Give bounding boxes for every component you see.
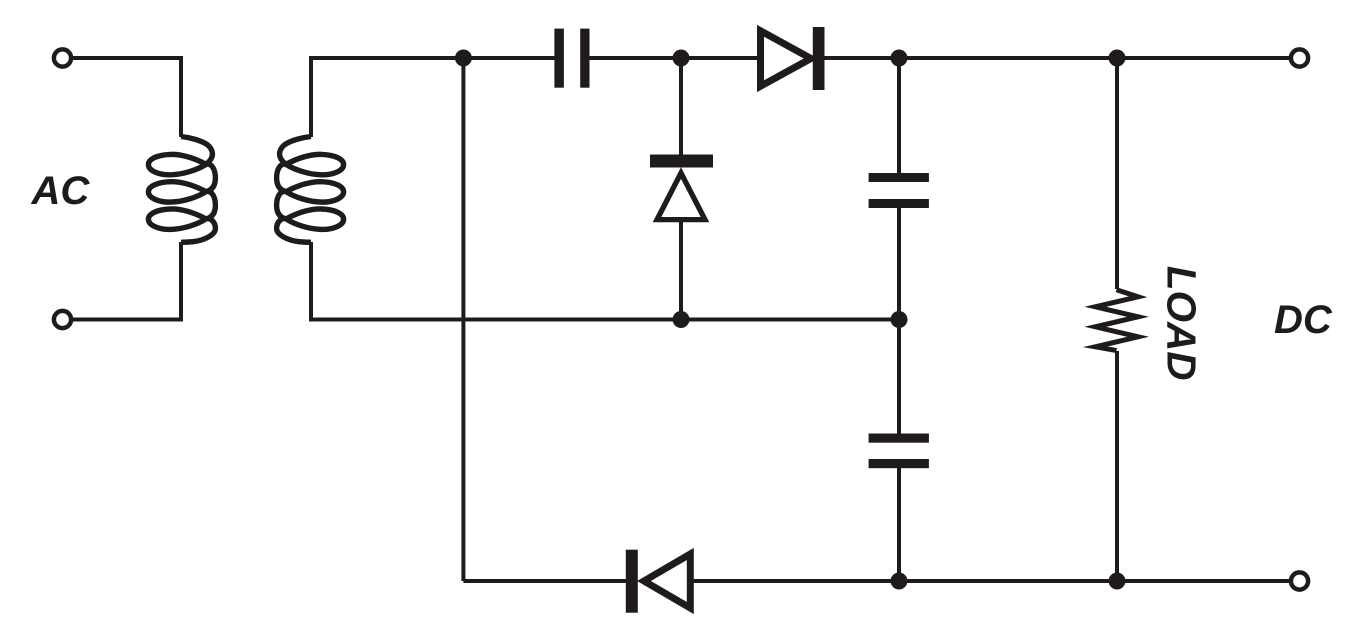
wire: AC bottom lead [73, 242, 182, 320]
junction dot top rail x=681 [673, 50, 690, 67]
junction dot middle rail x=899 [891, 311, 908, 328]
capacitor C2 plate top [869, 173, 929, 182]
wire: C2 bottom lead [897, 205, 901, 320]
wire: C3 top lead [897, 320, 901, 437]
terminal: DC minus [1291, 572, 1308, 589]
terminal: DC plus [1291, 49, 1308, 66]
wire: zener top lead [679, 58, 683, 157]
wire: top rail C1 to D1 [588, 56, 759, 60]
capacitor C2 plate bottom [869, 199, 929, 208]
junction dot middle rail x=681 [673, 311, 690, 328]
svg-text:AC: AC [30, 169, 90, 213]
wire: zener bottom lead [679, 221, 683, 320]
transformer primary winding L1 [148, 137, 215, 243]
wire: top rail D1 to DC+ terminal [823, 56, 1289, 60]
wire: C2 top lead [897, 58, 901, 176]
wire: secondary top stub to top rail [311, 58, 556, 137]
zener diode D3 cathode bar [650, 155, 713, 168]
resistor R-load zigzag [1095, 290, 1138, 351]
capacitor C3 plate bottom [869, 459, 929, 468]
wire: load top lead [1115, 58, 1119, 289]
wire: secondary bottom stub and middle rail [311, 242, 899, 320]
wire: bottom rail left of D2 [463, 579, 629, 583]
svg-text:DC: DC [1274, 298, 1333, 342]
wire: load bottom lead [1115, 351, 1119, 581]
junction dot bottom rail x=1117 [1109, 573, 1126, 590]
capacitor C1 plate right [580, 29, 589, 88]
diode D2 triangle [644, 554, 690, 608]
junction dot top rail x=1117 [1109, 50, 1126, 67]
terminal: AC top [54, 49, 71, 66]
junction dot top rail x=899 [891, 50, 908, 67]
junction dot top rail x=463 [455, 50, 472, 67]
svg-text:LOAD: LOAD [1159, 266, 1205, 381]
diode D2 cathode bar [626, 550, 638, 613]
diode D1 cathode bar [813, 27, 825, 90]
diode D1 triangle [761, 31, 812, 86]
transformer secondary winding L2 [277, 137, 344, 243]
wire: C3 bottom lead [897, 465, 901, 581]
zener diode D3 triangle [657, 173, 705, 220]
capacitor C1 plate left [554, 29, 564, 88]
wire: left vertical bus x=463 [461, 58, 465, 581]
capacitor C3 plate top [869, 434, 929, 443]
terminal: AC bottom [54, 311, 71, 328]
junction dot bottom rail x=899 [891, 573, 908, 590]
wire: AC top lead [73, 58, 182, 137]
wire: bottom rail D2 to DC- terminal [691, 579, 1289, 583]
